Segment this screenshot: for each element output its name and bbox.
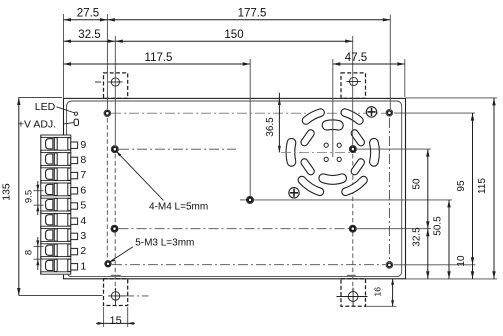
svg-text:7: 7: [80, 169, 86, 181]
svg-text:32.5: 32.5: [78, 29, 100, 41]
svg-text:115: 115: [477, 178, 488, 194]
svg-text:5: 5: [80, 200, 86, 212]
svg-text:50: 50: [412, 178, 423, 190]
svg-text:10: 10: [456, 255, 467, 267]
svg-text:2: 2: [80, 245, 86, 257]
svg-text:47.5: 47.5: [345, 52, 367, 64]
svg-text:1: 1: [80, 260, 86, 272]
svg-text:5-M3 L=3mm: 5-M3 L=3mm: [135, 238, 194, 249]
svg-text:135: 135: [1, 183, 13, 201]
svg-text:9: 9: [80, 139, 86, 151]
svg-text:95: 95: [456, 180, 467, 192]
svg-text:177.5: 177.5: [238, 8, 267, 20]
svg-text:8: 8: [24, 250, 35, 255]
svg-text:6: 6: [80, 184, 86, 196]
svg-text:4-M4 L=5mm: 4-M4 L=5mm: [149, 202, 208, 213]
svg-text:9.5: 9.5: [24, 190, 35, 203]
svg-text:LED: LED: [35, 101, 56, 113]
svg-text:4: 4: [80, 215, 86, 227]
svg-text:36.5: 36.5: [265, 117, 276, 137]
svg-text:8: 8: [80, 154, 86, 166]
svg-text:+V ADJ.: +V ADJ.: [18, 118, 56, 130]
svg-text:3: 3: [80, 230, 86, 242]
svg-text:27.5: 27.5: [77, 8, 99, 20]
svg-text:117.5: 117.5: [145, 52, 173, 64]
svg-text:16: 16: [373, 287, 383, 297]
svg-text:15: 15: [109, 315, 121, 327]
svg-text:32.5: 32.5: [412, 227, 423, 247]
svg-text:150: 150: [224, 29, 243, 41]
svg-text:50.5: 50.5: [433, 216, 444, 236]
